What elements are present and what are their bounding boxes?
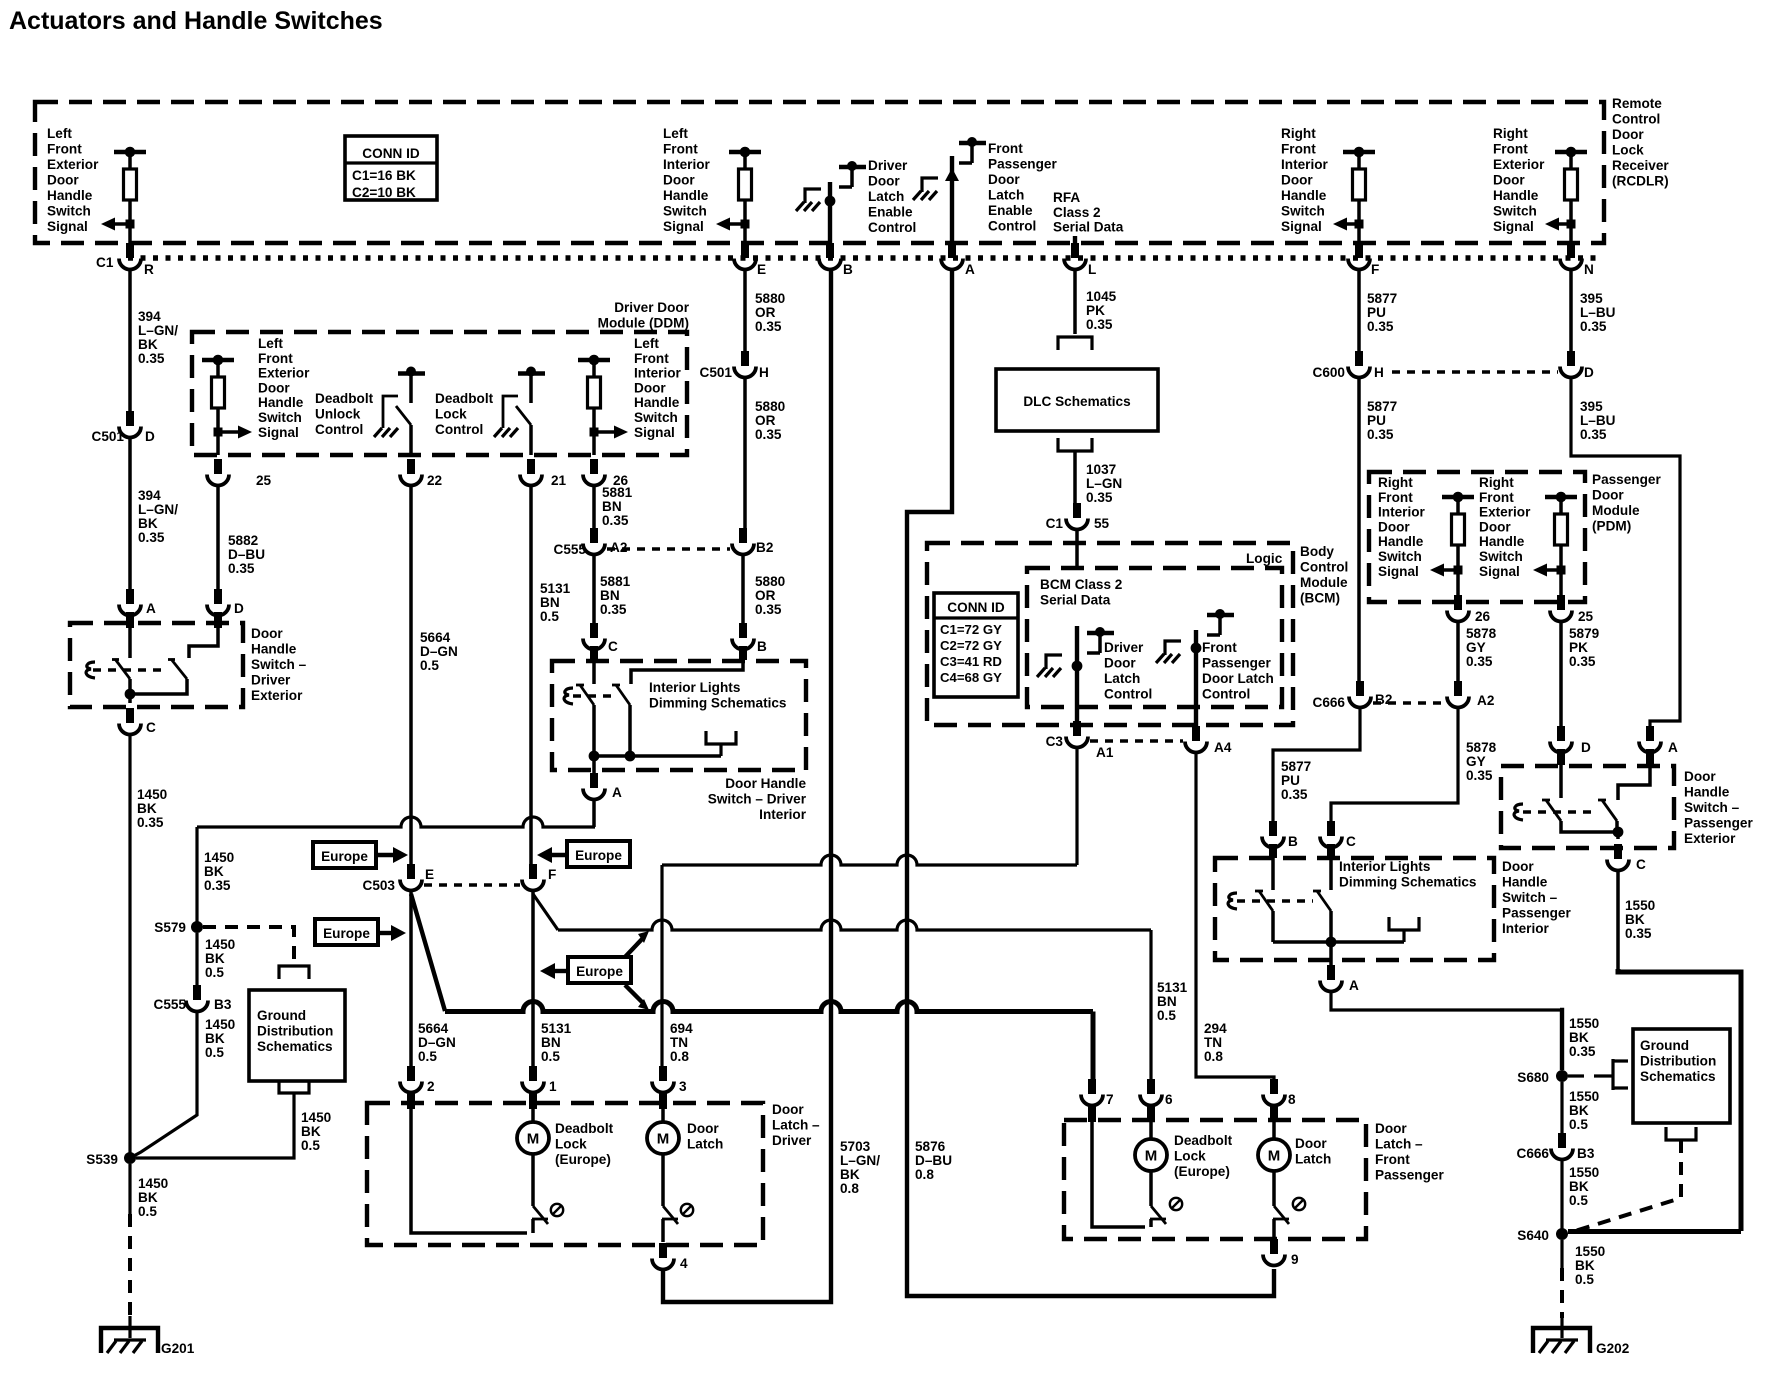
switch outputs to junction (interior lights passenger): [1271, 911, 1275, 942]
svg-text:2: 2: [427, 1079, 435, 1094]
connector pin L: [1071, 243, 1079, 258]
svg-text:6: 6: [1165, 1092, 1173, 1107]
signal arrow: Right Front Exterior Door Handle Switch Signal: [1567, 220, 1576, 229]
svg-text:CONN ID: CONN ID: [362, 146, 420, 161]
module box: Passenger Door Module (PDM): [1369, 472, 1585, 602]
svg-text:22: 22: [427, 473, 443, 488]
switch blade right (passenger exterior): [1602, 800, 1617, 821]
wire 1450 BK: bus to S579: [195, 827, 198, 927]
wire: S640 junction from right edge wire: [1568, 1229, 1741, 1234]
svg-text:C: C: [146, 720, 156, 735]
splice S579: [191, 921, 203, 933]
wire 1550 BK: pin C to elbow: [1616, 870, 1620, 969]
connector row dotted line (RCDLR C1/C2): [128, 255, 1602, 260]
connector pin A (interior lights driver): [590, 773, 598, 788]
junction dot (driver door latch control): [1072, 661, 1083, 672]
box: Ground Distribution Schematics (right): [1633, 1029, 1730, 1123]
Europe arrow 3 (points right): [378, 931, 394, 935]
wire: pin D elbow to right fixed contact: [214, 612, 222, 628]
dashed connector link C666 B2-A2: [1373, 701, 1445, 704]
Europe arrow 2 (points left at 5131 wire): [549, 853, 567, 857]
wire: deadbolt switch to pin2 elbow: [531, 1219, 535, 1233]
svg-text:Actuators and Handle Switches: Actuators and Handle Switches: [9, 7, 383, 35]
wire: door latch switch to pin 4: [661, 1219, 665, 1242]
chassis ground (driver door latch control): [1046, 655, 1062, 669]
Europe arrow 1 (points right at 5664 wire): [378, 853, 396, 857]
svg-text:DoorLatch: DoorLatch: [687, 1121, 723, 1152]
switch actuator tail glyph: [86, 662, 95, 678]
svg-text:1: 1: [549, 1079, 557, 1094]
wire: deadbolt switch to pin7 elbow (passenger): [1149, 1219, 1153, 1227]
svg-text:D: D: [1581, 740, 1591, 755]
svg-text:C3: C3: [1046, 734, 1064, 749]
wire 5664 D-GN: pin 22 to C503-E: [409, 485, 413, 877]
switch actuator link dashed (passenger exterior): [1523, 810, 1598, 813]
wire: junction to pin A (interior lights driver): [592, 756, 596, 786]
box: Ground Distribution Schematics (left): [249, 990, 345, 1081]
switch actuator tail (interior lights driver): [564, 688, 573, 704]
wire 1550 BK: C666-B3 to S640: [1560, 1159, 1563, 1234]
svg-text:D: D: [1584, 365, 1594, 380]
Europe tag box 2: [567, 841, 630, 867]
connector pin C (passenger exterior switch): [1614, 844, 1622, 859]
junction dot (interior lights passenger): [1326, 937, 1337, 948]
svg-text:N: N: [1584, 262, 1594, 277]
svg-text:A1: A1: [1096, 745, 1114, 760]
wire: pin 7 elbow to deadbolt switch return (passenger): [1088, 1104, 1096, 1122]
module box: Interior Lights Dimming Schematics (driver): [552, 661, 806, 770]
ground G202: [1560, 1318, 1563, 1338]
wire bus 5131 BN to pin 6 (jumps 694/5703/5876 wires): [558, 920, 1151, 930]
svg-text:G202: G202: [1596, 1341, 1630, 1356]
svg-text:M: M: [527, 1131, 540, 1148]
resistor: Left Front Interior Door Handle Switch (in RCDLR): [729, 150, 761, 154]
wire: front passenger door latch enable control to pin A: [950, 156, 954, 243]
svg-text:C600: C600: [1313, 365, 1346, 380]
wire 1450 BK: C555-B3 to S539: [130, 1011, 197, 1158]
connector pin 22 (DDM): [407, 459, 415, 474]
dashed wire: bracket to S640: [1575, 1140, 1681, 1231]
switch common to pin C (passenger exterior): [1561, 821, 1618, 832]
resistor: Right Front Exterior Door Handle Switch signal (PDM): [1545, 495, 1577, 499]
svg-text:C: C: [1346, 834, 1356, 849]
svg-text:21: 21: [551, 473, 567, 488]
connector pin B: [826, 243, 834, 258]
wire: pin D into switch (fixed contact): [1557, 749, 1565, 765]
wire: pin 2 elbow to deadbolt switch return: [407, 1091, 415, 1109]
module box: Door Handle Switch - Passenger Exterior: [1501, 766, 1674, 848]
connector C666 pin B3: [1558, 1133, 1566, 1148]
svg-text:B: B: [757, 639, 767, 654]
front passenger door latch control driver glyph (BCM): [1207, 613, 1234, 617]
ground G201: [128, 1316, 131, 1338]
connector pin C (interior lights passenger): [1327, 821, 1335, 836]
Europe arrow 4 down-branch: [625, 985, 644, 1004]
chassis ground (driver door latch enable): [805, 189, 821, 203]
resistor: Right Front Exterior Door Handle Switch (in RCDLR): [1555, 150, 1587, 154]
svg-text:7: 7: [1106, 1092, 1114, 1107]
wire 5878 GY: pin 26 to C666-A2: [1456, 621, 1460, 694]
svg-text:M: M: [1268, 1148, 1281, 1165]
continuation bracket (interior lights passenger): [1389, 917, 1419, 930]
wire 1450 BK: pin C down to S539: [128, 734, 131, 1158]
connector C1 pin R: [126, 243, 134, 258]
wire 1550 BK: elbow to S640 (via right edge): [1618, 969, 1741, 1231]
connector pin D (passenger exterior switch): [1557, 726, 1565, 741]
wire 5664 D-GN: C503-E to pin 2 (straight): [409, 890, 413, 1080]
connector pin 6 (door latch front passenger): [1147, 1079, 1155, 1094]
wire 5876 D-BU: RCDLR pin A to pin 9 (long, with jog): [907, 269, 1274, 1296]
connector pin F: [1355, 243, 1363, 258]
wire 5131 BN: C503-F to pin 1 (straight): [531, 890, 535, 1080]
svg-text:B3: B3: [214, 997, 232, 1012]
dashed connector link C3 A1-A4: [1090, 739, 1183, 742]
connector pin 26 (PDM): [1454, 595, 1462, 610]
Europe tag box 3: [315, 919, 378, 945]
svg-text:G201: G201: [161, 1341, 195, 1356]
svg-text:E: E: [757, 262, 766, 277]
wire 394 L-GN/BK: C1-R to C501-D: [128, 269, 132, 424]
svg-text:C1: C1: [1046, 516, 1064, 531]
svg-text:D: D: [145, 429, 155, 444]
wire 294 TN: A4 to pin 8: [1196, 752, 1274, 1092]
connector pin C (door handle switch driver exterior): [126, 708, 134, 723]
module box: Body Control Module (BCM) outer: [927, 543, 1293, 725]
connector pin 25 (DDM): [214, 459, 222, 474]
chassis ground (front passenger door latch control): [1165, 641, 1181, 655]
wire 1037 L-GN: DLC to BCM C1-55: [1073, 451, 1077, 516]
svg-text:S640: S640: [1517, 1228, 1549, 1243]
continuation bracket above Ground Distribution Schematics (left): [279, 966, 309, 979]
switch actuator link dashed (interior lights passenger): [1237, 899, 1313, 902]
wire bus 1450 BK: interior-lights A to S579 branch (jumps pin22/pin21 wires): [197, 817, 595, 827]
svg-text:3: 3: [679, 1079, 687, 1094]
connector C600 pin H: [1355, 351, 1363, 366]
wire 5880 OR: pin E to C501-H: [743, 269, 747, 364]
svg-text:M: M: [657, 1131, 670, 1148]
continuation bracket (interior lights driver): [706, 731, 736, 744]
resistor: Right Front Interior Door Handle Switch (in RCDLR): [1343, 150, 1375, 154]
svg-text:C: C: [1636, 857, 1646, 872]
connector pin A (door handle switch driver exterior): [126, 589, 134, 604]
switch blade right (interior lights passenger): [1317, 891, 1331, 911]
svg-text:C501: C501: [92, 429, 125, 444]
connector pin B (interior lights passenger): [1269, 821, 1277, 836]
connector pin 9 (door latch front passenger): [1270, 1239, 1278, 1254]
normally-open symbol (driver door latch): [681, 1204, 693, 1216]
wire 5877 PU: C600-H to C666-B2: [1357, 377, 1361, 694]
wire: common to pin C: [1616, 832, 1620, 839]
wire: pin A elbow to right fixed contact: [1646, 749, 1654, 765]
connector pin 7 (door latch front passenger): [1088, 1079, 1096, 1094]
signal arrow: Right Front Interior Door Handle Switch Signal: [1355, 220, 1364, 229]
wire 5664 D-GN: C503-E diagonal branch to bus: [411, 894, 445, 1011]
signal arrow right (DDM left): [214, 428, 223, 437]
box: DLC Schematics: [996, 369, 1158, 431]
svg-text:H: H: [1374, 365, 1384, 380]
svg-text:CONN ID: CONN ID: [947, 600, 1005, 615]
svg-text:Europe: Europe: [323, 926, 370, 941]
link S680 to ground distribution bracket (right): [1568, 1074, 1612, 1077]
connector pin 26 (DDM): [590, 459, 598, 474]
driver door latch control driver glyph (BCM): [1087, 631, 1114, 635]
deadbolt lock motor switch (passenger): [1149, 1171, 1153, 1206]
signal arrow left (PDM interior): [1454, 566, 1463, 575]
wire 1550 BK: S680 to C666-B3: [1560, 1082, 1563, 1146]
wire bus 694 TN: BCM C3-A1 to pin 3 (jumps 5703/5876 wires): [662, 855, 1077, 865]
driver door latch enable driver glyph (in RCDLR): [839, 165, 866, 169]
svg-text:B: B: [1288, 834, 1298, 849]
wire 5131 BN: C503-F diagonal branch to bus: [533, 894, 558, 930]
deadbolt lock motor switch (driver): [531, 1154, 535, 1206]
svg-text:Logic: Logic: [1246, 551, 1283, 566]
svg-text:Europe: Europe: [576, 964, 623, 979]
connector pin A: [948, 243, 956, 258]
dashed wire: S579 to ground distribution bracket: [203, 927, 294, 966]
wire 5703: pin 4 to RCDLR pin B (long): [663, 269, 831, 1302]
wire 1450 BK: S579 to C555-B3: [195, 933, 198, 998]
junction dot (front passenger door latch control): [1191, 643, 1202, 654]
svg-text:9: 9: [1291, 1252, 1299, 1267]
svg-text:25: 25: [1578, 609, 1594, 624]
svg-text:S579: S579: [154, 920, 186, 935]
wire 1550 BK: elbow down to S680: [1560, 1010, 1562, 1070]
connector pin 3 (door latch driver): [659, 1066, 667, 1081]
connector pin B (interior lights driver): [739, 623, 747, 638]
svg-text:DoorLatch: DoorLatch: [1295, 1136, 1331, 1167]
signal arrow: Left Front Exterior Door Handle Switch Signal: [126, 220, 135, 229]
switch blade left (interior lights driver): [580, 685, 594, 705]
wire: pin A into switch (fixed contact): [126, 612, 134, 628]
wire 5131 BN: pin 21 to C503-F: [529, 485, 533, 877]
svg-text:A2: A2: [1477, 693, 1495, 708]
module box: BCM Class 2 Serial Data inner: [1027, 568, 1282, 707]
connector pin 1 (door latch driver): [529, 1066, 537, 1081]
connector C600 pin D: [1567, 351, 1575, 366]
connector C1 pin 55 (BCM): [1073, 503, 1081, 518]
wire 1550 BK: S640 to G202: [1560, 1240, 1563, 1268]
svg-text:R: R: [144, 262, 154, 277]
switch actuator link (dashed): [93, 668, 164, 671]
wire 395 L-BU: pin N to C600-D: [1569, 269, 1573, 364]
svg-text:A: A: [1668, 740, 1678, 755]
wire: switch common to pin C: [128, 694, 132, 703]
normally-open symbol (passenger door latch): [1293, 1198, 1305, 1210]
wire: pin C to right fixed contact (passenger IL): [1327, 844, 1335, 858]
signal arrow right (DDM right): [590, 428, 599, 437]
normally-open symbol (passenger deadbolt): [1170, 1198, 1182, 1210]
wire 5880 OR: C501-H to C555-B2: [743, 377, 747, 541]
wire 1045 PK: pin L to DLC bracket: [1073, 269, 1077, 334]
connector C555 pin A2: [590, 528, 598, 543]
svg-text:26: 26: [1475, 609, 1491, 624]
svg-text:DLC Schematics: DLC Schematics: [1023, 394, 1130, 409]
wire 5881 BN: C555-A2 to interior lights C: [592, 554, 596, 636]
continuation bracket below Ground Distribution Schematics (left): [279, 1080, 309, 1093]
wire 5880 OR: C555-B2 to interior lights B: [741, 554, 745, 636]
svg-text:B2: B2: [756, 540, 774, 555]
splice S539: [124, 1152, 136, 1164]
wire 5877 PU: pin F to C600-H: [1357, 269, 1361, 364]
connector C555 pin B2: [739, 528, 747, 543]
svg-text:55: 55: [1094, 516, 1110, 531]
connector pin D (door handle switch driver exterior): [214, 589, 222, 604]
svg-text:C666: C666: [1517, 1146, 1550, 1161]
wire bus 5664 D-GN to pin 7 (thick, jumps 5131/694/5703/5876 wires): [445, 1002, 1093, 1012]
svg-text:S680: S680: [1517, 1070, 1549, 1085]
switch common: blade outputs to pin C: [130, 679, 187, 694]
svg-text:A: A: [965, 262, 975, 277]
connector C666 pin A2: [1454, 681, 1462, 696]
junction dot on driver latch enable wire: [825, 196, 836, 207]
connector C503 pin E: [407, 864, 415, 879]
svg-text:Europe: Europe: [575, 848, 622, 863]
wire: junction to pin A (interior lights passenger): [1329, 942, 1333, 978]
switch blade right (interior lights driver): [616, 685, 630, 705]
switch actuator link dashed (interior lights driver): [573, 694, 612, 697]
Europe tag box 4: [568, 957, 631, 983]
wire: deadbolt unlock switch to pin 22: [409, 425, 413, 455]
svg-text:D: D: [234, 601, 244, 616]
motor: Deadbolt Lock (Europe) driver: [529, 1091, 537, 1109]
svg-text:C666: C666: [1313, 695, 1346, 710]
connector pin E: [741, 243, 749, 258]
wire: pin B to left fixed contact (passenger IL): [1269, 844, 1277, 858]
CONN ID table (BCM): [934, 593, 1018, 697]
junction dots (interior lights driver): [589, 751, 600, 762]
svg-text:A4: A4: [1214, 740, 1232, 755]
wire: driver door latch control to C3-A1: [1075, 626, 1079, 733]
svg-text:25: 25: [256, 473, 272, 488]
wire 5881 BN: pin 26 to C555-A2: [592, 485, 596, 541]
svg-text:A: A: [1349, 978, 1359, 993]
normally-open symbol (driver deadbolt): [551, 1204, 563, 1216]
Europe arrow 4 up-branch: [625, 937, 644, 957]
resistor: Left Front Interior Door Handle Switch signal (in DDM): [578, 358, 610, 362]
svg-text:F: F: [548, 867, 556, 882]
switch blade left (interior lights passenger): [1259, 891, 1273, 911]
splice S640: [1556, 1228, 1568, 1240]
connector pin 8 (door latch front passenger): [1270, 1079, 1278, 1094]
wire 395 L-BU: C600-D jog to passenger exterior switch A: [1571, 377, 1680, 734]
continuation bracket above DLC Schematics: [1058, 337, 1092, 350]
wire: door latch switch to pin 9: [1272, 1219, 1276, 1238]
wire: pin B elbow to right fixed contact: [739, 646, 747, 660]
continuation bracket below DLC Schematics: [1058, 438, 1092, 451]
wire 5882 D-BU: pin 25 to door handle switch D: [216, 485, 220, 602]
wire stub: RFA class 2 serial data to pin L: [1073, 236, 1077, 243]
wire 5878 GY: C666-A2 to interior lights C (passenger): [1331, 707, 1458, 834]
svg-text:B3: B3: [1577, 1146, 1595, 1161]
svg-text:F: F: [1371, 262, 1379, 277]
door latch motor switch (driver): [661, 1154, 665, 1206]
svg-text:S539: S539: [86, 1152, 118, 1167]
svg-text:C503: C503: [363, 878, 396, 893]
svg-text:L: L: [1088, 262, 1096, 277]
wire 1450 BK: bracket to S539 junction: [136, 1093, 294, 1158]
continuation bracket below Ground Distribution Schematics (right): [1666, 1127, 1696, 1140]
svg-text:C555: C555: [554, 542, 587, 557]
dashed connector link C600 H-D: [1392, 370, 1558, 373]
svg-text:8: 8: [1288, 1092, 1296, 1107]
switch blade left (driver exterior handle switch): [115, 659, 130, 679]
deadbolt unlock control switch (DDM): [398, 371, 425, 375]
Europe tag box 1: [313, 842, 376, 868]
resistor: Right Front Interior Door Handle Switch signal (PDM): [1442, 495, 1474, 499]
signal arrow left (PDM exterior): [1557, 566, 1566, 575]
motor: Deadbolt Lock (Europe) front passenger: [1147, 1104, 1155, 1122]
wire: front passenger door latch control to A4: [1194, 630, 1198, 738]
connector C503 pin F: [529, 864, 537, 879]
junction dot (passenger exterior common): [1613, 827, 1624, 838]
connector pin 25 (PDM): [1557, 595, 1565, 610]
module box: Interior Lights Dimming Schematics (passenger): [1215, 858, 1494, 960]
svg-text:M: M: [1145, 1148, 1158, 1165]
wire 1550 BK: pin A to elbow: [1331, 991, 1560, 1010]
wire 1450 BK: S539 to G201 (part solid part dashed): [128, 1164, 131, 1214]
svg-text:4: 4: [680, 1256, 688, 1271]
connector pin 21 (DDM): [527, 459, 535, 474]
switch actuator tail (interior lights passenger): [1228, 893, 1237, 909]
module box: Door Latch - Front Passenger: [1064, 1120, 1366, 1239]
wire 394 L-GN/BK: C501-D to door handle switch A: [128, 437, 132, 602]
module box: Remote Control Door Lock Receiver (RCDLR): [35, 102, 1604, 243]
dashed connector link C555 A2-B2: [607, 547, 730, 550]
wire: pin C to left fixed contact: [590, 646, 598, 660]
connector C501 pin D: [126, 411, 134, 426]
wire 5879 PK: pin 25 to passenger exterior switch D: [1559, 621, 1563, 734]
switch blade right (driver exterior handle switch): [171, 659, 187, 679]
svg-text:A: A: [612, 785, 622, 800]
CONN ID table (RCDLR): [345, 136, 437, 200]
connector pin 4 (door latch driver): [659, 1243, 667, 1258]
splice S680: [1556, 1070, 1568, 1082]
deadbolt lock control switch (DDM): [518, 371, 545, 375]
switch outputs to junction (interior lights driver): [592, 705, 596, 756]
svg-text:B2: B2: [1375, 692, 1393, 707]
connector C3 pin A1 (BCM): [1073, 721, 1081, 736]
connector pin A (passenger exterior switch): [1646, 726, 1654, 741]
up arrowhead on passenger latch enable wire: [945, 168, 959, 181]
resistor: Left Front Exterior Door Handle Switch (in RCDLR): [114, 150, 146, 154]
connector C501 pin H: [741, 351, 749, 366]
module box: Driver Door Module (DDM): [192, 332, 687, 455]
wire: C1-55 into BCM serial data box: [1075, 529, 1079, 568]
chassis ground (front passenger door latch enable): [922, 178, 938, 192]
dashed connector link C503 E-F: [424, 883, 520, 886]
connector C555 pin B3: [193, 985, 201, 1000]
svg-text:C1=72 GYC2=72 GYC3=41 RDC4=68: C1=72 GYC2=72 GYC3=41 RDC4=68 GY: [940, 622, 1002, 685]
svg-text:C555: C555: [154, 997, 187, 1012]
wire: pin A down to bus: [592, 799, 596, 827]
resistor: Left Front Exterior Door Handle Switch signal (in DDM): [202, 358, 234, 362]
svg-text:C501: C501: [700, 365, 733, 380]
svg-text:Europe: Europe: [321, 849, 368, 864]
switch blade left (passenger exterior): [1546, 800, 1561, 821]
motor: Door Latch driver: [659, 1091, 667, 1109]
connector pin A (interior lights passenger): [1327, 965, 1335, 980]
motor: Door Latch front passenger: [1270, 1104, 1278, 1122]
connector C666 pin B2: [1356, 681, 1364, 696]
door latch motor switch (passenger): [1272, 1171, 1276, 1206]
connector pin N: [1567, 243, 1575, 258]
Europe arrow 4 (points left): [552, 969, 568, 973]
signal arrow: Left Front Interior Door Handle Switch Signal: [741, 220, 750, 229]
module box: Door Handle Switch - Driver Exterior: [70, 623, 243, 707]
wire: deadbolt lock switch to pin 21: [529, 425, 533, 455]
connector pin 2 (door latch driver): [407, 1066, 415, 1081]
svg-text:H: H: [759, 365, 769, 380]
